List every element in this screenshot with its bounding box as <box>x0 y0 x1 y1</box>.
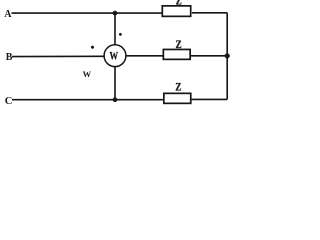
wattmeter W1 (circle body) <box>104 45 126 67</box>
wire line B right of meter to impedance <box>126 55 164 57</box>
wire from Z(C) to right bus <box>192 98 228 100</box>
wire from Z(A) to right bus <box>192 12 227 14</box>
impedance Z (phase A) body <box>162 6 190 17</box>
wire right bus (neutral tie) <box>226 13 228 100</box>
svg-text:W: W <box>110 49 119 63</box>
junction dot on line C <box>113 97 118 102</box>
svg-text:Z: Z <box>176 37 182 51</box>
junction dot on right bus <box>225 53 230 58</box>
wire line B left segment <box>12 55 105 57</box>
svg-text:W: W <box>83 69 92 79</box>
wire line A left segment <box>12 12 163 14</box>
polarity mark (asterisk) left of wattmeter on line B <box>91 45 95 49</box>
svg-text:C: C <box>5 96 13 107</box>
svg-text:B: B <box>6 52 13 63</box>
impedance Z (phase C) body <box>164 93 191 103</box>
wire line C left segment <box>12 99 164 101</box>
polarity mark (asterisk) right of vertical wire <box>119 33 123 37</box>
svg-text:Z: Z <box>175 79 181 93</box>
wire wattmeter to line C (vertical, meter to C) <box>114 66 116 99</box>
wire from Z(B) to right bus <box>191 55 227 57</box>
svg-text:A: A <box>4 9 12 20</box>
impedance Z (phase B) body <box>163 49 190 59</box>
wire wattmeter voltage tap (vertical, A to meter) <box>114 13 116 45</box>
junction dot on line A <box>113 11 118 16</box>
svg-text:Z: Z <box>176 0 182 8</box>
